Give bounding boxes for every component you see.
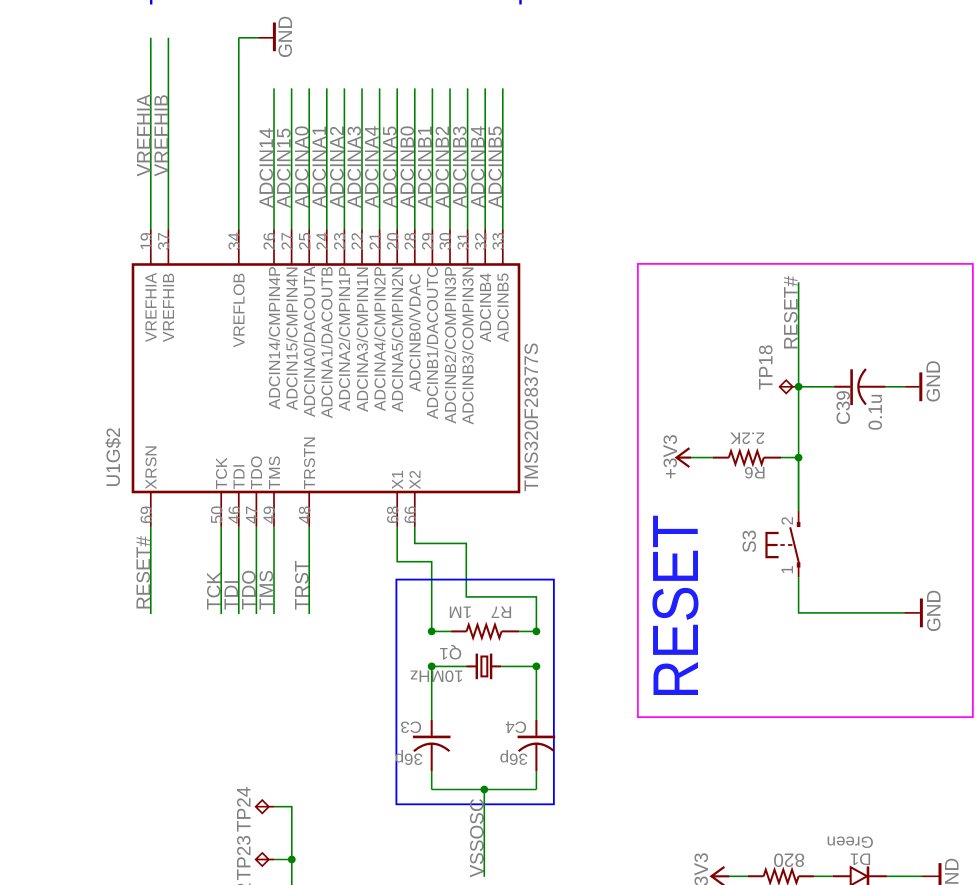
svg-text:GND: GND <box>924 360 945 402</box>
svg-text:29: 29 <box>420 232 438 250</box>
svg-text:TDI: TDI <box>232 464 249 490</box>
pin 66 X2 stub <box>414 492 416 527</box>
wire net RESET# <box>150 527 152 615</box>
svg-text:RESET#: RESET# <box>134 536 155 610</box>
svg-text:GND: GND <box>276 16 297 58</box>
IC U1G$2 TMS320F28377S body <box>133 265 519 493</box>
crystal Q1 symbol <box>467 654 502 680</box>
wire net ADCINA2 <box>343 88 345 229</box>
switch S3 actuator <box>767 533 794 557</box>
pin 47 TDO stub <box>255 492 257 527</box>
svg-text:ADCINB2/COMPIN3P: ADCINB2/COMPIN3P <box>443 266 460 423</box>
svg-text:32: 32 <box>472 232 490 250</box>
svg-text:27: 27 <box>279 232 297 250</box>
wire TP24 <box>274 807 291 860</box>
wire C3 bottom <box>431 771 433 789</box>
svg-text:R6: R6 <box>744 463 766 482</box>
wire C3 top <box>431 666 433 720</box>
svg-text:S3: S3 <box>740 530 761 553</box>
svg-text:ADCINA3/CMPIN1N: ADCINA3/CMPIN1N <box>355 266 372 412</box>
svg-text:ADCINB3/COMPIN3N: ADCINB3/COMPIN3N <box>460 266 477 424</box>
svg-text:D1: D1 <box>850 850 872 869</box>
pin 22 ADCINA3/CMPIN1N stub <box>361 230 363 265</box>
pin 19 VREFHIA stub <box>150 230 152 265</box>
testpoint TP23 stub <box>269 859 275 861</box>
magenta group box RESET <box>638 264 973 717</box>
svg-text:2.2K: 2.2K <box>729 428 765 447</box>
pin 49 TMS stub <box>273 492 275 527</box>
pin 30 ADCINB2/COMPIN3P stub <box>449 230 451 265</box>
svg-text:TMS: TMS <box>257 570 278 610</box>
pin 28 ADCINB0/VDAC stub <box>414 230 416 265</box>
supply +3V3 arrow <box>677 448 692 467</box>
svg-text:C4: C4 <box>505 718 527 737</box>
wire C4 top <box>535 666 537 720</box>
junction right crystal <box>533 663 541 671</box>
svg-text:TMS320F28377S: TMS320F28377S <box>522 343 543 492</box>
svg-text:25: 25 <box>296 232 314 250</box>
pin 33 ADCINB5 stub <box>502 230 504 265</box>
svg-text:19: 19 <box>138 232 156 250</box>
svg-text:VSSOSC: VSSOSC <box>467 798 488 877</box>
resistor R7 body <box>451 630 466 632</box>
wire net TDI <box>238 527 240 615</box>
wire net ADCINA3 <box>361 88 363 229</box>
svg-text:U1G$2: U1G$2 <box>104 427 125 487</box>
switch S3 pin 1 stub <box>798 563 800 577</box>
capacitor C39 symbol <box>834 369 886 405</box>
svg-text:TRST: TRST <box>292 560 313 610</box>
wire net ADCINA4 <box>379 88 381 229</box>
svg-text:ADCIN14/CMPIN4P: ADCIN14/CMPIN4P <box>267 266 284 409</box>
svg-text:48: 48 <box>296 506 314 524</box>
wire net ADCINB2 <box>449 88 451 229</box>
capacitor C4 symbol <box>535 720 537 736</box>
svg-text:36p: 36p <box>395 750 423 769</box>
wire C39 left <box>799 386 835 388</box>
wire net ADCIN15 <box>291 88 293 229</box>
pin 23 ADCINA2/CMPIN1P stub <box>343 230 345 265</box>
svg-text:49: 49 <box>261 506 279 524</box>
supply +3V3 LED arrow <box>711 867 729 885</box>
pin 32 ADCINB4 stub <box>484 230 486 265</box>
ground GND switch symbol <box>920 599 923 628</box>
wire net ADCIN14 <box>273 88 275 229</box>
switch S3 pin 1 contact <box>797 562 801 567</box>
ground GND top symbol <box>273 23 276 52</box>
svg-text:RESET: RESET <box>640 515 712 700</box>
blue group box oscillator <box>396 580 554 805</box>
svg-text:1: 1 <box>779 565 797 574</box>
wire net VREFHIB <box>167 38 169 230</box>
svg-text:46: 46 <box>226 506 244 524</box>
svg-text:Green: Green <box>827 832 874 851</box>
switch S3 pin 2 contact <box>797 522 801 527</box>
svg-text:VREFHIB: VREFHIB <box>161 273 178 342</box>
pin 68 X1 stub <box>396 492 398 527</box>
junction TP18 <box>795 383 803 391</box>
svg-text:ADCINA2/CMPIN1P: ADCINA2/CMPIN1P <box>337 266 354 411</box>
svg-text:RESET#: RESET# <box>782 276 803 350</box>
pin 24 ADCINA1/DACOUTB stub <box>326 230 328 265</box>
svg-text:TCK: TCK <box>214 457 231 489</box>
junction left R7 <box>428 628 436 636</box>
svg-text:ADCINB5: ADCINB5 <box>496 273 513 342</box>
pin 50 TCK stub <box>220 492 222 527</box>
pin 31 ADCINB3/COMPIN3N stub <box>467 230 469 265</box>
svg-text:1M: 1M <box>448 603 472 622</box>
svg-text:47: 47 <box>244 506 262 524</box>
ground GND C39 stub <box>905 386 919 388</box>
ground GND top pin stub <box>258 37 273 39</box>
svg-text:820: 820 <box>773 849 805 870</box>
junction right R7 <box>533 628 541 636</box>
wire C4 bottom <box>535 771 537 789</box>
junction VSSOSC <box>480 786 488 794</box>
wire R8 to D1 <box>814 875 833 877</box>
svg-text:31: 31 <box>455 232 473 250</box>
wire net TDO <box>255 527 257 615</box>
wire net TRST <box>308 527 310 615</box>
svg-text:0.1u: 0.1u <box>866 394 887 431</box>
svg-text:50: 50 <box>208 506 226 524</box>
svg-text:26: 26 <box>261 232 279 250</box>
wire net ADCINA5 <box>396 88 398 229</box>
pin 46 TDI stub <box>238 492 240 527</box>
wire +3V3 to R6 <box>691 457 713 459</box>
svg-text:ADCINA1/DACOUTB: ADCINA1/DACOUTB <box>320 266 337 418</box>
ground GND switch stub <box>904 612 920 614</box>
blue tick mark top-left <box>150 0 152 5</box>
svg-text:VREFLOB: VREFLOB <box>232 273 249 348</box>
pin 37 VREFHIB stub <box>167 230 169 265</box>
resistor R6 body <box>713 457 729 459</box>
wire VREFLOB to GND vertical <box>238 38 240 230</box>
wire net RESET# vertical <box>798 282 800 511</box>
svg-text:69: 69 <box>138 506 156 524</box>
svg-text:TDO: TDO <box>249 456 266 490</box>
svg-text:23: 23 <box>332 232 350 250</box>
svg-text:GND: GND <box>925 590 946 632</box>
pin 48 TRSTN stub <box>308 492 310 527</box>
pin 29 ADCINB1/DACOUTC stub <box>431 230 433 265</box>
svg-text:66: 66 <box>402 506 420 524</box>
junction TP23 <box>288 856 296 864</box>
wire GND horizontal <box>239 37 258 39</box>
svg-text:ADCINA5/CMPIN2N: ADCINA5/CMPIN2N <box>390 266 407 412</box>
svg-text:C39: C39 <box>834 390 855 425</box>
svg-text:ADCINA4/CMPIN2P: ADCINA4/CMPIN2P <box>372 266 389 411</box>
svg-text:+3V3: +3V3 <box>661 434 682 479</box>
testpoint TP18 <box>780 380 793 393</box>
pin 34 VREFLOB stub <box>238 230 240 265</box>
wire net ADCINB0 <box>414 88 416 229</box>
svg-text:VREFHIB: VREFHIB <box>152 94 173 176</box>
svg-text:2: 2 <box>779 516 797 525</box>
svg-text:34: 34 <box>226 232 244 250</box>
wire net ADCINB5 <box>502 88 504 229</box>
svg-text:+3V3: +3V3 <box>692 852 713 885</box>
blue tick mark top-right <box>519 0 521 5</box>
svg-text:X2: X2 <box>408 470 425 490</box>
wire X2 to crystal <box>415 527 537 632</box>
svg-text:TMS: TMS <box>267 456 284 490</box>
svg-text:TRSTN: TRSTN <box>302 436 319 489</box>
svg-text:21: 21 <box>367 232 385 250</box>
svg-text:TP23: TP23 <box>235 835 256 880</box>
pin 20 ADCINA5/CMPIN2N stub <box>396 230 398 265</box>
junction left crystal <box>428 663 436 671</box>
wire test points down <box>291 860 293 885</box>
resistor 820 body <box>748 875 764 877</box>
svg-text:10MHz: 10MHz <box>410 666 464 685</box>
svg-text:ADCINA0/DACOUTA: ADCINA0/DACOUTA <box>302 266 319 417</box>
pin 69 XRSN stub <box>150 492 152 527</box>
switch S3 lever <box>790 527 799 563</box>
svg-text:33: 33 <box>490 232 508 250</box>
wire +3V3 to R8 <box>729 875 748 877</box>
wire net ADCINB3 <box>467 88 469 229</box>
wire net TMS <box>273 527 275 615</box>
svg-text:VREFHIA: VREFHIA <box>144 272 161 342</box>
wire net ADCINB1 <box>431 88 433 229</box>
ground GND LED stub <box>922 875 939 877</box>
capacitor C3 symbol <box>431 720 433 736</box>
wire net ADCINB4 <box>484 88 486 229</box>
junction R6 <box>795 454 803 462</box>
pin 27 ADCIN15/CMPIN4N stub <box>291 230 293 265</box>
pin 26 ADCIN14/CMPIN4P stub <box>273 230 275 265</box>
svg-text:GND: GND <box>943 858 964 885</box>
wire node to switch <box>798 458 800 511</box>
svg-text:ADCINB4: ADCINB4 <box>478 273 495 342</box>
svg-text:X1: X1 <box>390 470 407 490</box>
wire crystal right <box>501 665 536 667</box>
wire R7 right <box>519 630 536 632</box>
svg-text:ADCINB1/DACOUTC: ADCINB1/DACOUTC <box>425 266 442 419</box>
svg-text:24: 24 <box>314 232 332 250</box>
wire R6 to node <box>781 457 799 459</box>
svg-text:C3: C3 <box>400 718 422 737</box>
wire switch to GND <box>799 577 905 613</box>
wire net ADCINA1 <box>326 88 328 229</box>
LED D1 symbol <box>833 866 887 885</box>
svg-text:20: 20 <box>384 232 402 250</box>
svg-text:28: 28 <box>402 232 420 250</box>
wire X1 to crystal <box>397 527 432 632</box>
testpoint TP23 <box>256 853 269 866</box>
pin 25 ADCINA0/DACOUTA stub <box>308 230 310 265</box>
wire net VREFHIA <box>150 38 152 230</box>
svg-text:ADCINB5: ADCINB5 <box>486 126 507 208</box>
svg-text:ADCINB0/VDAC: ADCINB0/VDAC <box>408 274 425 392</box>
pin 21 ADCINA4/CMPIN2P stub <box>379 230 381 265</box>
svg-text:68: 68 <box>384 506 402 524</box>
wire oscillator bottom <box>432 789 537 791</box>
ground GND LED symbol <box>939 863 942 885</box>
svg-text:Q1: Q1 <box>439 644 462 663</box>
wire net ADCINA0 <box>308 88 310 229</box>
wire TP23 <box>274 859 291 861</box>
svg-text:36p: 36p <box>500 750 528 769</box>
switch S3 pin 2 stub <box>798 511 800 527</box>
wire R7 left <box>432 630 451 632</box>
svg-text:TP24: TP24 <box>235 786 256 832</box>
svg-text:R7: R7 <box>491 603 513 622</box>
wire C39 to GND <box>886 386 906 388</box>
testpoint TP24 stub <box>269 806 275 808</box>
svg-text:TP18: TP18 <box>757 345 778 390</box>
svg-text:22: 22 <box>349 232 367 250</box>
wire net TCK <box>220 527 222 615</box>
svg-text:30: 30 <box>437 232 455 250</box>
svg-text:37: 37 <box>156 232 174 250</box>
ground GND C39 symbol <box>919 372 922 401</box>
svg-text:XRSN: XRSN <box>144 445 161 489</box>
testpoint TP24 <box>256 800 269 813</box>
testpoint TP18 stub <box>793 386 799 388</box>
svg-text:ADCIN15/CMPIN4N: ADCIN15/CMPIN4N <box>284 266 301 410</box>
wire D1 to GND <box>887 875 922 877</box>
wire net VSSOSC <box>483 790 485 877</box>
wire crystal left <box>432 665 467 667</box>
